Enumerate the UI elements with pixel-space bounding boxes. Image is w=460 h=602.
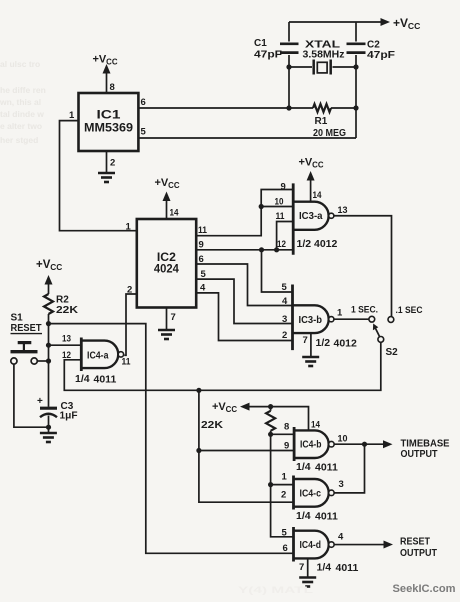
svg-text:C2: C2 [367, 40, 380, 51]
svg-text:20 MEG: 20 MEG [313, 128, 346, 139]
svg-text:+V: +V [393, 16, 408, 30]
svg-text:RESET: RESET [11, 323, 42, 334]
svg-text:8: 8 [284, 422, 289, 433]
svg-text:C1: C1 [254, 38, 267, 49]
svg-text:2: 2 [281, 490, 286, 501]
svg-text:+V: +V [36, 259, 51, 271]
svg-text:47pF: 47pF [367, 50, 395, 61]
svg-text:IC3-a: IC3-a [299, 210, 323, 222]
svg-text:4011: 4011 [94, 374, 117, 386]
svg-text:IC3-b: IC3-b [299, 314, 323, 326]
svg-text:OUTPUT: OUTPUT [401, 449, 438, 460]
svg-text:13: 13 [62, 334, 71, 345]
svg-text:4: 4 [200, 283, 206, 294]
svg-text:47pF: 47pF [254, 50, 282, 61]
svg-text:4012: 4012 [334, 338, 358, 350]
svg-text:3: 3 [282, 314, 287, 325]
svg-text:12: 12 [277, 239, 286, 250]
svg-text:+V: +V [299, 157, 313, 169]
svg-text:3.58MHz: 3.58MHz [303, 50, 345, 61]
svg-text:SeekIC.com: SeekIC.com [393, 583, 456, 595]
svg-text:IC4-d: IC4-d [300, 539, 322, 551]
svg-text:CC: CC [226, 405, 238, 414]
svg-text:22K: 22K [201, 420, 224, 431]
svg-text:+V: +V [93, 54, 107, 66]
svg-text:CC: CC [408, 21, 420, 31]
svg-text:.1 SEC: .1 SEC [396, 305, 423, 316]
svg-text:2: 2 [110, 158, 115, 169]
svg-text:1 SEC.: 1 SEC. [351, 305, 378, 316]
svg-text:8: 8 [110, 82, 115, 93]
svg-text:e alter two: e alter two [0, 121, 42, 131]
svg-text:13: 13 [338, 205, 348, 216]
svg-text:10: 10 [338, 434, 348, 445]
svg-text:1: 1 [337, 308, 343, 319]
svg-text:OUTPUT: OUTPUT [400, 548, 437, 559]
svg-text:4011: 4011 [336, 562, 359, 574]
svg-text:4012: 4012 [314, 238, 338, 250]
svg-text:4: 4 [282, 296, 288, 307]
svg-text:1/2: 1/2 [316, 337, 331, 349]
svg-text:10: 10 [275, 197, 284, 208]
svg-text:tal dinde w: tal dinde w [0, 109, 44, 119]
svg-text:S1: S1 [11, 313, 24, 324]
svg-text:1: 1 [282, 472, 288, 483]
svg-text:CC: CC [106, 58, 118, 67]
svg-text:9: 9 [281, 182, 286, 193]
svg-text:1/4: 1/4 [296, 510, 311, 522]
svg-text:TIMEBASE: TIMEBASE [401, 439, 450, 450]
svg-text:9: 9 [199, 240, 204, 251]
svg-text:al ulsc tro: al ulsc tro [0, 59, 40, 69]
svg-text:14: 14 [170, 208, 180, 219]
svg-text:4: 4 [338, 532, 344, 543]
svg-text:IC4-c: IC4-c [300, 488, 322, 500]
svg-text:11: 11 [198, 225, 208, 236]
svg-text:CC: CC [168, 181, 180, 190]
svg-text:S2: S2 [386, 347, 399, 358]
svg-text:R1: R1 [315, 116, 328, 127]
svg-text:IC1: IC1 [97, 108, 121, 122]
svg-text:6: 6 [283, 543, 288, 554]
svg-text:6: 6 [141, 97, 146, 108]
svg-text:1/2: 1/2 [297, 238, 312, 250]
svg-text:5: 5 [282, 528, 288, 539]
svg-text:R2: R2 [56, 295, 69, 306]
svg-text:9: 9 [284, 441, 289, 452]
svg-text:22K: 22K [56, 305, 79, 316]
svg-text:7: 7 [299, 562, 304, 573]
svg-text:IC4-a: IC4-a [87, 350, 109, 362]
svg-text:her stged: her stged [0, 135, 38, 145]
svg-text:CC: CC [50, 262, 62, 272]
svg-text:2: 2 [282, 330, 287, 341]
svg-text:5: 5 [282, 282, 288, 293]
svg-text:5: 5 [141, 127, 147, 138]
svg-text:11: 11 [122, 357, 132, 368]
svg-text:7: 7 [303, 335, 308, 346]
svg-text:RESET: RESET [400, 537, 430, 548]
svg-text:4011: 4011 [315, 511, 338, 523]
svg-text:+V: +V [212, 401, 226, 413]
svg-text:1/4: 1/4 [317, 562, 332, 574]
svg-text:CC: CC [312, 161, 324, 170]
svg-text:12: 12 [62, 350, 71, 361]
svg-text:Y(4) MATL: Y(4) MATL [238, 585, 313, 596]
svg-text:+: + [37, 396, 43, 407]
svg-text:+V: +V [155, 177, 169, 189]
svg-text:14: 14 [311, 420, 321, 431]
svg-text:1μF: 1μF [60, 411, 78, 422]
svg-text:he diffe ren: he diffe ren [0, 85, 46, 95]
svg-text:1: 1 [69, 110, 75, 121]
svg-text:1/4: 1/4 [75, 373, 90, 385]
svg-text:wn, this al: wn, this al [0, 97, 41, 107]
svg-text:14: 14 [313, 190, 323, 201]
svg-text:IC4-b: IC4-b [300, 439, 322, 451]
svg-text:4024: 4024 [154, 262, 179, 276]
svg-text:3: 3 [339, 479, 344, 490]
svg-text:MM5369: MM5369 [84, 121, 133, 135]
svg-text:7: 7 [171, 312, 176, 323]
svg-text:4011: 4011 [315, 462, 338, 474]
svg-text:11: 11 [276, 211, 286, 222]
svg-text:1/4: 1/4 [296, 461, 311, 473]
svg-text:1: 1 [126, 222, 132, 233]
